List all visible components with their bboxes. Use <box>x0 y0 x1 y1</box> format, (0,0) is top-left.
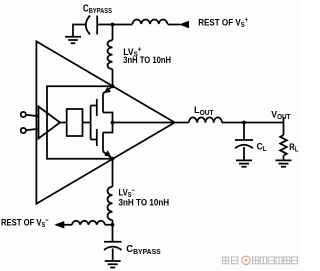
label LVS+ <box>123 46 141 58</box>
transistor Q2 gate bar <box>96 129 98 146</box>
wire (node to inductor) <box>113 24 133 26</box>
inductor (bottom, to rest of VS-) <box>72 221 105 225</box>
arrow (Q2 source current) <box>104 150 111 157</box>
node (output junction) <box>242 121 246 125</box>
op-amp U1 (main amplifier triangle) <box>36 41 174 203</box>
wire (VOUT down to RL) <box>283 123 285 136</box>
arrow (to REST OF VS-) <box>54 221 64 229</box>
wire (node down to CL) <box>243 123 245 141</box>
wire (to apex / output) <box>113 122 175 124</box>
resistor R_L <box>280 135 287 156</box>
wire Q2 drain <box>103 123 113 133</box>
wire (gate stub bottom) <box>91 139 97 141</box>
wire (cap to node) <box>97 24 112 26</box>
arrow (Q1 source current) <box>104 87 111 94</box>
supply-current loop (internal rails rectangle) <box>47 86 113 158</box>
watermark <box>223 256 298 264</box>
inductor (top, to rest of VS+) <box>133 20 168 24</box>
svg-text:3nH TO 10nH: 3nH TO 10nH <box>119 197 170 208</box>
capacitor C_BYPASS (bottom) <box>104 242 122 250</box>
label C_BYPASS (top) <box>83 2 113 15</box>
ground (top left) <box>65 37 81 44</box>
wire (input top) <box>26 115 39 116</box>
label V_OUT <box>271 109 290 121</box>
wire (ground to CBYPASS top) <box>73 25 86 37</box>
label R_L <box>289 141 298 154</box>
node (VS- entry on triangle edge) <box>111 157 115 161</box>
inductor LVS+ <box>108 40 113 69</box>
input terminal + <box>21 112 26 117</box>
wire (top node down to LVS+) <box>112 25 114 41</box>
node (bottom supply junction) <box>111 223 115 227</box>
inductor L_OUT <box>189 117 222 122</box>
node (VS+ entry on triangle edge) <box>111 84 115 88</box>
wire (cap to ground) <box>112 249 114 262</box>
wire (CL to ground) <box>243 147 245 160</box>
wire (to VOUT) <box>244 122 284 124</box>
label C_BYPASS (bottom) <box>126 244 161 256</box>
wire (box to gates) <box>83 122 91 124</box>
transistor Q1 gate bar <box>96 99 98 116</box>
label REST OF VS- <box>1 217 49 230</box>
wire (RL to ground) <box>283 156 285 161</box>
wire Q1 source (from VS+ node) <box>103 86 113 93</box>
arrow (to REST OF VS+) <box>179 21 189 29</box>
node (output stage midpoint) <box>111 121 115 125</box>
wire (LVS+ to triangle edge) <box>112 69 114 86</box>
wire (LOUT to output node) <box>222 122 244 124</box>
op-amp input buffer (small triangle) <box>39 107 61 139</box>
wire (bottom node down to CBYPASS) <box>112 225 114 242</box>
node (top supply junction) <box>111 23 115 27</box>
wire (gate riser) <box>90 106 92 140</box>
inductor LVS- <box>108 187 113 220</box>
capacitor C_L <box>235 140 253 148</box>
driver block <box>67 109 83 136</box>
input terminal - <box>21 128 26 133</box>
ground (under CL) <box>236 160 252 166</box>
wire Q1 drain <box>103 113 113 123</box>
wire (buffer to driver box) <box>60 122 67 124</box>
wire (gate stub top) <box>91 105 97 107</box>
wire <box>168 24 181 26</box>
label REST OF VS+ <box>198 17 248 29</box>
wire (input bottom) <box>26 129 39 130</box>
ground (under RL) <box>276 160 292 166</box>
transistor Q2 channel <box>102 133 104 152</box>
label 3nH TO 10nH (bottom) <box>119 197 170 208</box>
label C_L <box>257 141 267 153</box>
wire <box>64 224 113 226</box>
wire (apex to LOUT) <box>175 122 189 124</box>
label L_OUT <box>194 105 214 117</box>
ground (bottom) <box>105 261 121 268</box>
svg-text:3nH TO 10nH: 3nH TO 10nH <box>123 54 171 65</box>
wire (down to LVS-) <box>112 159 114 187</box>
label LVS- <box>119 187 136 200</box>
capacitor C_BYPASS (top) <box>86 16 97 35</box>
wire (LVS- to bottom node) <box>112 220 114 225</box>
label 3nH TO 10nH (top) <box>123 54 171 65</box>
wire Q2 source (to VS- node) <box>103 152 113 159</box>
transistor Q1 channel <box>102 94 104 113</box>
terminal VOUT tick <box>283 117 285 123</box>
